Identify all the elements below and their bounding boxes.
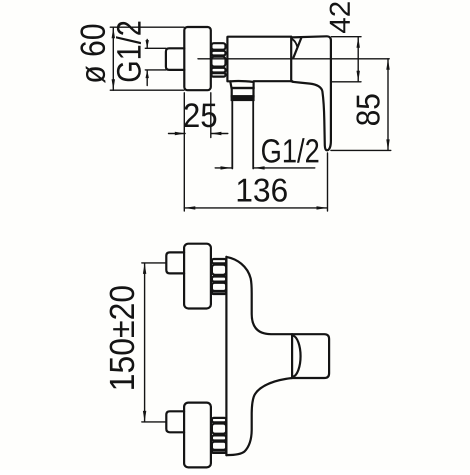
dim ø60 extension lines: [110, 27, 184, 90]
dim G1/2 outlet leader: [215, 167, 315, 169]
dim 150±20: [142, 263, 167, 422]
dim 136: [184, 153, 327, 211]
outlet pipe sides: [232, 100, 253, 169]
G1/2 outlet arrows: [221, 166, 232, 169]
label ø60: [80, 25, 105, 84]
nipple top (front view): [166, 252, 184, 273]
label 85: [356, 94, 379, 125]
label 25: [185, 103, 217, 127]
arrowheads top: [112, 27, 390, 209]
nipple bottom (front view): [166, 411, 184, 432]
union nut top (front view): [212, 259, 226, 294]
union nut (side view): [211, 43, 225, 76]
dim 42: [332, 37, 362, 82]
outlet connector: [232, 88, 254, 96]
escutcheon ø60 (side view): [184, 27, 211, 90]
handle boss arc: [293, 336, 301, 377]
body left edge (front view): [225, 257, 227, 455]
dim G1/2 nipple: [145, 39, 166, 85]
dim 85: [331, 59, 391, 151]
nipple G1/2 (side view): [166, 48, 184, 70]
outlet thick ring: [232, 96, 254, 100]
body outline upper (front view): [226, 257, 292, 334]
dim 25: [169, 93, 228, 211]
dim ø60 line: [112, 27, 114, 90]
mixer body (side view): [227, 37, 292, 82]
25 arrows: [175, 132, 185, 135]
label G1/2 wall thread: [116, 22, 141, 82]
body outline lower (front view): [226, 378, 292, 455]
escutcheon bottom (front view): [184, 403, 211, 468]
label 136: [238, 179, 287, 202]
shower outlet spout: [230, 81, 253, 88]
42 arrows: [357, 37, 360, 48]
handle back diagonal: [293, 38, 301, 59]
handle neck fillet: [292, 39, 297, 47]
label G1/2 outlet: [262, 138, 318, 163]
136 arrows: [184, 206, 195, 209]
union nut bottom (front view): [212, 418, 226, 453]
G1/2 nipple arrows: [146, 40, 149, 48]
cartridge joint line: [290, 37, 292, 81]
escutcheon top (front view): [184, 244, 211, 309]
ø60 arrows: [112, 27, 115, 38]
handle boss cylinder (front view): [292, 334, 329, 378]
handle lever (side view): [292, 36, 331, 150]
centerline: [198, 58, 389, 60]
label 42: [330, 2, 350, 33]
label 150±20: [110, 286, 135, 389]
85 arrows: [386, 59, 389, 70]
